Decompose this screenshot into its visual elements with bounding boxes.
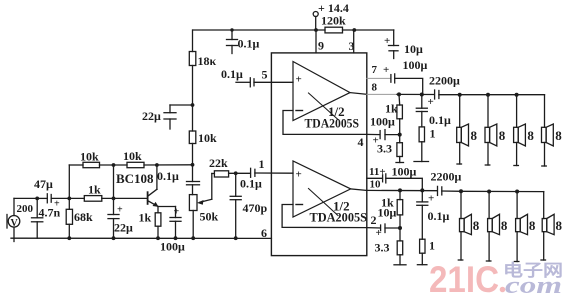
svg-text:10μ: 10μ — [378, 206, 397, 220]
svg-text:8: 8 — [473, 218, 480, 233]
svg-text:+: + — [384, 35, 390, 47]
svg-text:21IC: 21IC — [429, 259, 499, 300]
speaker LS5 — [458, 191, 480, 260]
pin 7 wire — [367, 77, 391, 79]
svg-text:68k: 68k — [74, 210, 93, 224]
speaker LS1 — [457, 95, 478, 164]
pin 10 output wire — [367, 189, 437, 191]
microphone — [8, 216, 20, 228]
ground zobel U1b — [417, 264, 427, 266]
svg-text:1: 1 — [259, 157, 265, 171]
svg-text:com: com — [505, 273, 562, 299]
resistor 1k base — [69, 197, 84, 199]
svg-text:8: 8 — [372, 82, 378, 94]
capacitor 0.1u mid — [187, 181, 200, 183]
svg-text:10k: 10k — [198, 131, 217, 145]
svg-text:47μ: 47μ — [34, 177, 53, 191]
zobel U1a : resistor 1 — [419, 127, 424, 142]
capacitor 2200u U1b — [437, 186, 439, 195]
svg-text:0.1μ: 0.1μ — [221, 67, 243, 81]
svg-text:3: 3 — [349, 39, 355, 53]
speaker LS8 — [541, 192, 563, 260]
svg-text:BC108: BC108 — [116, 171, 154, 186]
capacitor 47u — [37, 197, 47, 199]
wire speaker rail upper — [460, 94, 545, 96]
svg-text:10μ: 10μ — [404, 42, 423, 56]
svg-text:18κ: 18κ — [198, 54, 217, 68]
resistor 1k U1a — [398, 94, 401, 105]
svg-text:22k: 22k — [209, 156, 228, 170]
svg-text:120k: 120k — [321, 14, 346, 28]
node 470p — [234, 171, 238, 175]
capacitor 0.1u pin5 — [236, 81, 250, 83]
svg-text:8: 8 — [471, 128, 478, 143]
svg-text:2200μ: 2200μ — [429, 74, 460, 88]
svg-text:8: 8 — [501, 218, 508, 233]
wire output U1b — [351, 189, 367, 191]
zobel U1b : resistor 1 — [420, 239, 425, 253]
svg-text:0.1μ: 0.1μ — [238, 37, 260, 51]
svg-text:6: 6 — [261, 226, 267, 240]
op-amp U1b triangle — [293, 161, 351, 217]
wire ground rail bottom — [11, 237, 271, 239]
svg-text:22μ: 22μ — [142, 109, 161, 123]
svg-text:1k: 1k — [385, 102, 398, 116]
wire output U1a — [350, 93, 367, 95]
svg-text:100μ: 100μ — [403, 58, 428, 72]
svg-text:10: 10 — [370, 179, 382, 191]
wire feedback U1a — [283, 111, 367, 135]
wire 68k column — [68, 165, 70, 209]
watermark 21IC — [429, 259, 563, 300]
svg-text:+: + — [428, 96, 434, 108]
wire pin3 — [353, 30, 355, 53]
capacitor 100u emitter — [158, 206, 176, 208]
ground zobel U1a — [414, 161, 429, 163]
svg-text:+: + — [428, 193, 434, 205]
wire left drop from rail — [192, 30, 194, 52]
svg-text:0.1μ: 0.1μ — [428, 209, 450, 223]
svg-text:+: + — [376, 227, 382, 239]
capacitor 0.1u series pin1 — [250, 168, 252, 177]
svg-text:3.3: 3.3 — [377, 142, 392, 156]
svg-text:0.1μ: 0.1μ — [157, 169, 179, 183]
speaker LS6 — [486, 192, 508, 262]
wire supply stub — [315, 17, 317, 31]
line callout X — [309, 189, 339, 216]
svg-text:100μ: 100μ — [370, 115, 395, 129]
svg-text:+: + — [174, 207, 180, 218]
potentiometer 50k — [189, 195, 197, 211]
svg-text:10k: 10k — [80, 150, 99, 164]
wire — [192, 66, 194, 132]
node pin3 — [352, 28, 356, 32]
resistor 120k — [325, 27, 343, 33]
resistor 3.3 U1a — [397, 143, 403, 157]
capacitor 4.7n — [36, 198, 38, 217]
svg-text:TDA2005S: TDA2005S — [305, 116, 360, 131]
svg-text:8: 8 — [529, 218, 536, 233]
node input — [35, 197, 39, 201]
wire pin9 — [315, 30, 317, 53]
resistor 10k vertical — [189, 131, 196, 144]
line callout X — [309, 93, 339, 120]
op-amp U1a triangle — [293, 62, 350, 121]
zobel U1b : capacitor 0.1u — [421, 190, 423, 202]
svg-text:+: + — [296, 169, 302, 181]
wire feedback U1b — [282, 205, 367, 228]
capacitor 10u supply — [393, 30, 395, 46]
svg-text:1k: 1k — [139, 211, 152, 225]
resistor 68k — [66, 209, 72, 224]
svg-text:8: 8 — [556, 218, 563, 233]
capacitor 22u bypass — [113, 165, 115, 215]
svg-text:+: + — [296, 74, 302, 86]
speaker LS2 — [485, 95, 506, 165]
svg-text:+: + — [383, 64, 389, 76]
svg-text:5: 5 — [262, 68, 268, 82]
svg-text:22μ: 22μ — [114, 221, 133, 235]
svg-text:10k: 10k — [123, 149, 142, 163]
svg-text:100μ: 100μ — [392, 165, 417, 179]
speaker LS7 — [514, 192, 536, 262]
capacitor 100u bootstrap U1b — [382, 175, 384, 182]
svg-text:9: 9 — [318, 39, 324, 53]
svg-text:8: 8 — [555, 128, 562, 143]
svg-text:8: 8 — [527, 128, 534, 143]
bias rail 10k/10k — [69, 164, 83, 166]
node 22u bypass cross — [112, 197, 116, 201]
capacitor 470p — [235, 173, 237, 196]
svg-text:2: 2 — [371, 213, 377, 227]
capacitor 22u left — [170, 104, 193, 106]
svg-text:7: 7 — [372, 64, 378, 76]
svg-text:8: 8 — [499, 128, 506, 143]
wire speaker rail lower — [461, 190, 544, 192]
capacitor 2200u U1a — [434, 90, 436, 99]
node pot-bottom — [191, 236, 195, 240]
wire top rail — [193, 29, 325, 31]
node bias rail joins — [191, 163, 195, 167]
+14.4 supply terminal — [313, 12, 318, 17]
svg-text:50k: 50k — [200, 210, 219, 224]
zobel U1a : capacitor 0.1u — [421, 95, 423, 109]
svg-text:1k: 1k — [88, 183, 101, 197]
resistor 10k first — [83, 162, 100, 167]
capacitor 0.1u top — [231, 30, 233, 40]
capacitor 100u bootstrap U1a — [390, 75, 392, 83]
op-amp IC box TDA2005S — [271, 53, 366, 256]
speaker LS4 — [542, 95, 563, 166]
svg-text:2200μ: 2200μ — [431, 170, 462, 184]
node pin9 — [314, 28, 318, 32]
svg-text:TDA2005S: TDA2005S — [310, 210, 368, 225]
svg-text:100μ: 100μ — [160, 240, 185, 254]
svg-text:0.1μ: 0.1μ — [429, 113, 451, 127]
resistor 1k U1b — [399, 190, 401, 199]
svg-text:1: 1 — [430, 127, 436, 141]
resistor 18k — [189, 52, 196, 66]
svg-text:4: 4 — [358, 135, 364, 149]
node bias mid — [112, 163, 116, 167]
svg-text:0.1μ: 0.1μ — [240, 177, 262, 191]
svg-text:200: 200 — [17, 203, 34, 215]
wire — [192, 144, 194, 182]
node rail-left — [230, 28, 233, 31]
svg-text:4.7n: 4.7n — [39, 206, 61, 220]
svg-text:470p: 470p — [243, 201, 268, 215]
svg-text:3.3: 3.3 — [375, 241, 390, 255]
node input-top — [67, 197, 71, 201]
resistor 3.3 U1b — [397, 241, 403, 255]
resistor 1k emitter — [157, 207, 159, 213]
node collector top — [155, 163, 159, 167]
node 18k/10k junction — [191, 103, 195, 107]
svg-text:+: + — [117, 205, 123, 216]
svg-text:1: 1 — [429, 239, 435, 253]
resistor 10k second — [127, 162, 144, 167]
speaker LS3 — [514, 95, 535, 166]
